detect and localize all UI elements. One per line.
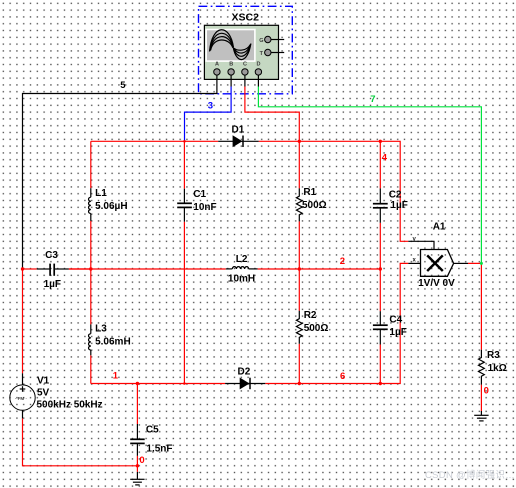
- svg-text:C3: C3: [45, 250, 58, 261]
- svg-text:V1: V1: [37, 376, 50, 387]
- svg-text:L3: L3: [95, 324, 107, 335]
- wire C4 column (red): [379, 269, 381, 311]
- wire A1 output to R3 (red): [468, 263, 481, 349]
- junction C2C4 / middle rail: [379, 267, 382, 270]
- svg-text:4: 4: [382, 152, 388, 163]
- wire R3 bottom to ground (red): [480, 385, 482, 411]
- wire middle rail node 2 (red): [23, 268, 37, 270]
- resistor R1: [296, 188, 302, 221]
- diode D1: [218, 124, 259, 147]
- wire V1 bottom to C5 ground (red): [23, 418, 138, 465]
- resistor R3: [479, 350, 485, 385]
- junction R2 / bottom rail: [298, 382, 301, 385]
- junction green net7 / A1 out: [480, 262, 483, 265]
- junction L column / middle rail: [89, 267, 92, 270]
- svg-text:C4: C4: [389, 314, 402, 325]
- svg-text:2: 2: [340, 256, 345, 267]
- svg-text:500Ω: 500Ω: [302, 200, 327, 211]
- svg-text:1.5nF: 1.5nF: [146, 444, 172, 455]
- wire C2 column (red): [379, 141, 381, 188]
- FM source V1: [10, 373, 35, 418]
- capacitor C1: [177, 189, 192, 222]
- resistor R2: [296, 311, 302, 344]
- junction R column / middle rail: [298, 267, 301, 270]
- pin stub G: [271, 39, 284, 41]
- svg-text:5V: 5V: [37, 387, 50, 398]
- svg-text:1µF: 1µF: [390, 200, 407, 211]
- pin stub T: [271, 52, 284, 54]
- wire C1 column (red): [183, 141, 185, 188]
- svg-text:5.06mH: 5.06mH: [95, 337, 131, 348]
- svg-text:R1: R1: [303, 187, 316, 198]
- svg-text:10mH: 10mH: [228, 274, 255, 285]
- svg-text:5: 5: [120, 80, 126, 91]
- svg-text:1kΩ: 1kΩ: [488, 363, 507, 374]
- svg-text:1V/V 0V: 1V/V 0V: [418, 278, 455, 289]
- wire bottom rail node 1/6 (red): [91, 383, 225, 385]
- svg-text:500Ω: 500Ω: [304, 323, 329, 334]
- svg-text:C: C: [243, 62, 247, 68]
- svg-text:L2: L2: [236, 254, 248, 265]
- wire L1 column (red): [90, 141, 92, 188]
- capacitor C3 (horizontal): [37, 264, 69, 276]
- svg-text:R3: R3: [487, 350, 500, 361]
- svg-text:0: 0: [139, 455, 144, 466]
- wire net 4 from scope C to top rail at R1 (red): [245, 87, 299, 142]
- svg-text:L1: L1: [95, 188, 107, 199]
- wire R2 column (red): [298, 269, 300, 311]
- svg-text:A1: A1: [433, 222, 446, 233]
- svg-text:1µF: 1µF: [44, 279, 61, 290]
- svg-text:A: A: [215, 62, 219, 68]
- wire net 3 from scope B to C1 top (blue): [185, 87, 232, 142]
- svg-text:XSC2: XSC2: [232, 11, 260, 23]
- svg-text:R2: R2: [304, 310, 317, 321]
- svg-text:0: 0: [484, 385, 489, 396]
- svg-text:5.06µH: 5.06µH: [95, 201, 127, 212]
- svg-text:500kHz 50kHz: 500kHz 50kHz: [37, 400, 103, 411]
- svg-text:C2: C2: [389, 189, 402, 200]
- junction C2 top / net4: [379, 140, 382, 143]
- junction blue wire / top rail: [183, 140, 186, 143]
- diode D2: [225, 367, 265, 390]
- svg-text:C5: C5: [146, 425, 159, 436]
- svg-text:1µF: 1µF: [389, 327, 406, 338]
- svg-text:1: 1: [113, 370, 119, 381]
- svg-text:D2: D2: [238, 367, 251, 378]
- wire V1 top (red): [22, 269, 24, 373]
- wire C5 column (red): [136, 384, 138, 425]
- svg-text:C1: C1: [193, 189, 206, 200]
- svg-text:B: B: [229, 62, 233, 68]
- svg-text:10nF: 10nF: [193, 202, 216, 213]
- svg-text:7: 7: [370, 94, 375, 105]
- oscilloscope U1 XSC2 selection box: [199, 6, 293, 94]
- junction C4 / bottom rail: [379, 382, 382, 385]
- screen sine waves: [210, 30, 251, 60]
- oscilloscope XSC2 body: [204, 25, 284, 86]
- wire L3 column (red): [90, 269, 92, 324]
- wire R1 column (red): [298, 141, 300, 188]
- capacitor C5: [130, 424, 145, 456]
- junction node2 / C3 left: [21, 267, 24, 270]
- inductor L3: [89, 324, 91, 355]
- svg-text:D: D: [257, 62, 261, 68]
- svg-text:3: 3: [208, 101, 213, 112]
- ground at R3: [474, 411, 488, 421]
- inductor L1: [89, 188, 91, 221]
- capacitor C2: [373, 188, 388, 222]
- junction C5 / bottom rail: [136, 382, 139, 385]
- svg-text:CSDN @博闻强识…: CSDN @博闻强识…: [425, 469, 515, 481]
- svg-text:· FM ·: · FM ·: [15, 396, 27, 401]
- wire net 7 from scope D to A1 output (green): [258, 87, 481, 264]
- junction R1 top / net4: [298, 140, 301, 143]
- wire top rail right of D1 to A1 y-input (red): [259, 141, 409, 241]
- junction C5 bottom / V1 return: [136, 464, 139, 467]
- junction C1 col / bottom rail: [183, 382, 186, 385]
- svg-text:D1: D1: [232, 124, 245, 135]
- wire top rail node 4 (red): [91, 140, 218, 142]
- capacitor C4: [373, 311, 388, 344]
- multiplier A1: [408, 236, 468, 276]
- svg-text:6: 6: [340, 371, 345, 382]
- svg-text:G: G: [259, 38, 263, 44]
- wire net 5 from scope A down-left to C3 (black): [23, 87, 217, 270]
- ground at C5: [130, 472, 144, 485]
- inductor L2: [226, 267, 258, 269]
- wire C3 row (red parts): [69, 268, 91, 270]
